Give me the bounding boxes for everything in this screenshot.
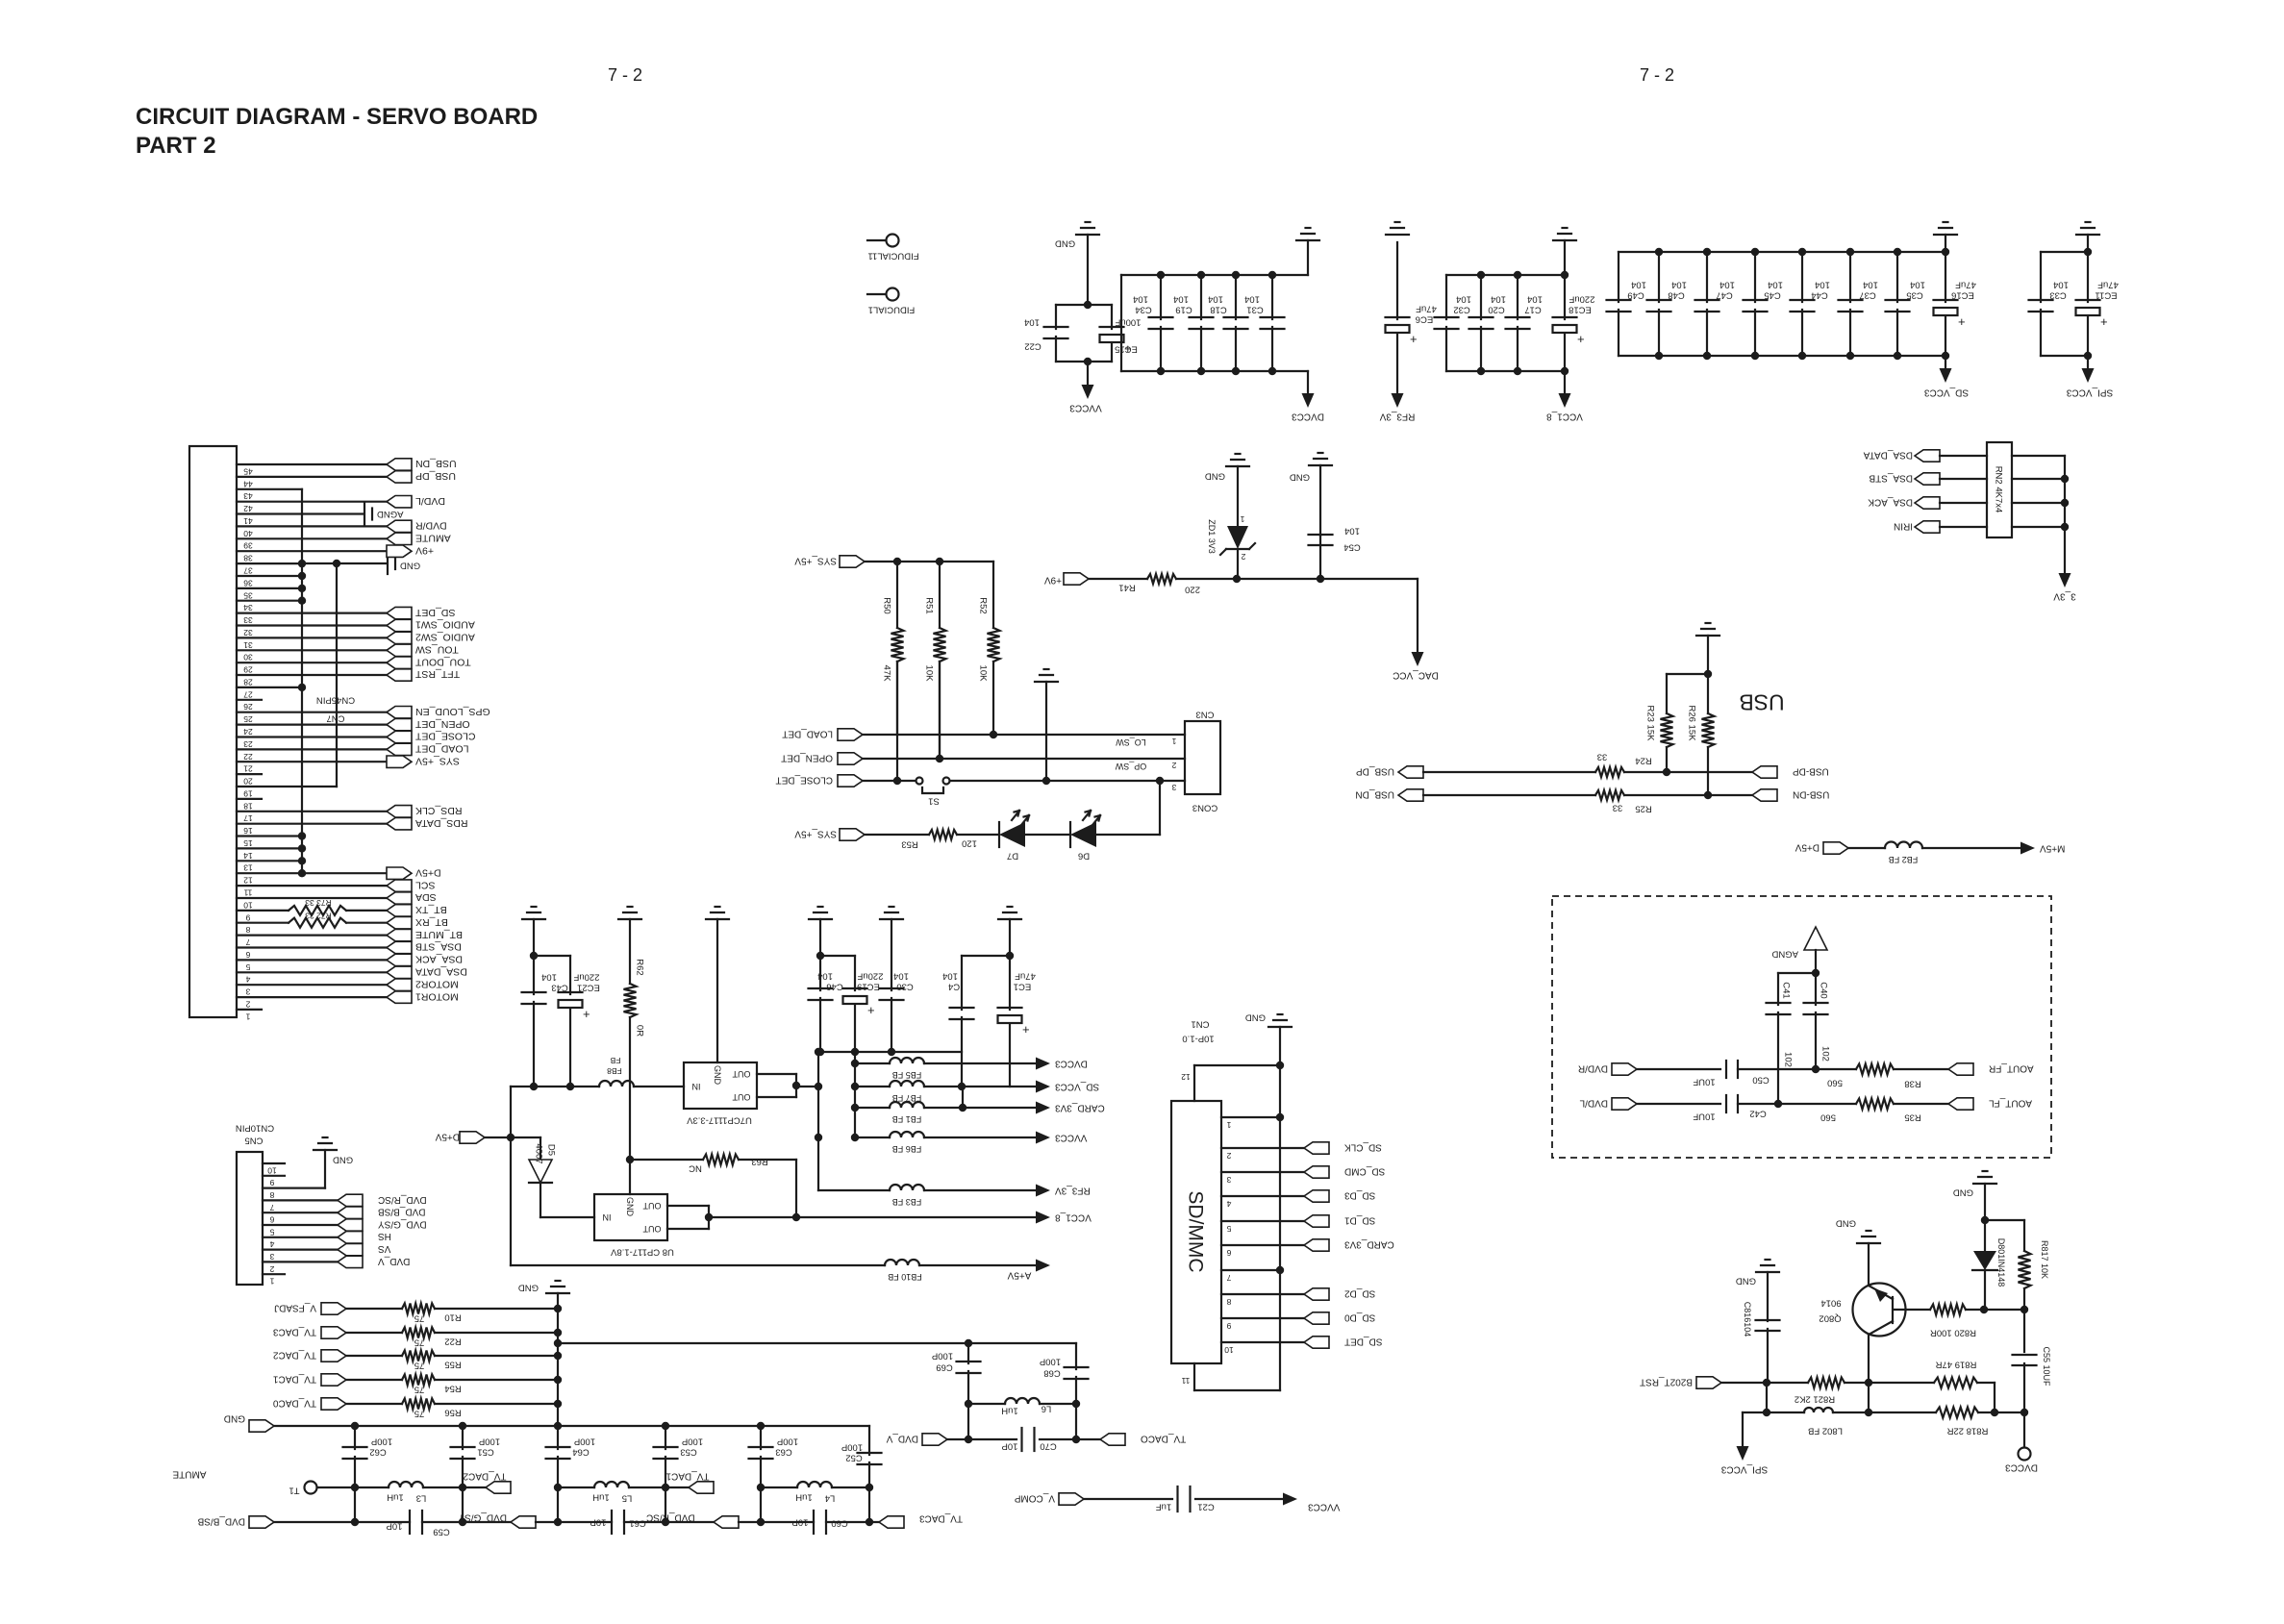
capacitor C31 104 [1271,275,1273,319]
wire TV-DAC termination bus [557,1293,559,1426]
svg-text:NC: NC [689,1163,702,1174]
svg-text:104: 104 [1768,280,1783,290]
svg-text:104: 104 [1863,280,1878,290]
svg-text:42: 42 [243,504,253,513]
wire input rail vertical [510,1087,512,1265]
svg-text:47uF: 47uF [1416,304,1437,314]
svg-text:R817 10K: R817 10K [2040,1240,2049,1279]
capacitor EC11 47uF [2087,252,2089,302]
svg-text:104: 104 [541,972,557,983]
svg-text:DVD_G/SY: DVD_G/SY [458,1512,507,1522]
svg-text:R23 15K: R23 15K [1645,706,1656,742]
net flag USB_DP (CN7 pin 44) [387,471,412,483]
ferrite bead FB3 FB (RF3_3V) [817,1137,819,1190]
svg-text:3_3V: 3_3V [2053,590,2076,601]
svg-text:100uF: 100uF [1115,317,1141,328]
CN7 pin 3 [237,984,387,986]
svg-text:13: 13 [243,863,253,873]
svg-text:OPEN_DET: OPEN_DET [781,752,833,762]
ground GND above EC11 [2076,234,2099,236]
CN1 pin 1 [1221,1116,1280,1118]
svg-text:104: 104 [1815,280,1830,290]
wire R821 to collector [1845,1382,1869,1384]
capacitor EC21 220uF [534,955,570,957]
svg-text:C52: C52 [845,1453,862,1463]
resistor R26 15K [1707,636,1709,713]
CN5 pin 2 [263,1261,338,1262]
svg-text:R24: R24 [1635,756,1651,766]
svg-text:GND: GND [1736,1276,1756,1287]
svg-text:100P: 100P [682,1437,703,1447]
capacitor C22 104 (VVCC3) [1056,304,1112,306]
svg-text:0R: 0R [635,1025,645,1037]
wire Q802 collector [1868,1335,1870,1383]
capacitor C68 100P [1075,1343,1077,1369]
CN5 pin 5 [263,1224,338,1226]
svg-text:104: 104 [2053,280,2069,290]
CN1 pin 6 [1221,1244,1304,1246]
net flag MOTOR1 (CN7 pin 2) [387,991,412,1003]
wire R820 to node [1966,1309,2024,1311]
svg-text:DSA_ACK: DSA_ACK [1868,496,1913,507]
wire video gnd bus [274,1425,869,1427]
net arrow CARD_3V3 [1036,1102,1050,1114]
svg-text:ZD1 3V3: ZD1 3V3 [1207,519,1217,554]
capacitor C30 104 [891,919,892,990]
svg-text:RF3_3V: RF3_3V [1379,411,1415,421]
svg-text:OUT: OUT [642,1224,662,1234]
wire IRIN to RN2 [1940,526,1987,528]
svg-text:104: 104 [1024,317,1040,328]
svg-text:GPS_LOUD_EN: GPS_LOUD_EN [415,706,490,717]
wire input rail top [511,1086,599,1087]
wire R50 bottom [896,662,898,781]
svg-text:33: 33 [1613,803,1623,813]
svg-text:3: 3 [269,1252,274,1262]
net flag DVD_V (CN5 pin 2) [338,1256,363,1267]
svg-text:C51: C51 [477,1447,493,1458]
ground AGND at CN7 pin41 [364,504,365,525]
wire to R53 [865,834,929,836]
svg-text:3: 3 [245,987,250,997]
svg-text:SPI_VCC3: SPI_VCC3 [2066,387,2113,397]
wire USB_DN to R25 [1423,794,1595,796]
junction CN7 pin 35 [298,585,306,592]
wire TV_DAC1 to R [346,1379,402,1381]
wire L802 to R818 [1833,1412,1936,1413]
svg-text:1uF: 1uF [1156,1502,1172,1512]
svg-text:220uF: 220uF [857,971,883,982]
CN7 pin 18 [237,798,262,800]
capacitor C816 104 [1756,1271,1779,1273]
svg-text:RDS_DATA: RDS_DATA [415,817,467,829]
net flag TV_DAC2 [486,1482,511,1493]
svg-text:24: 24 [243,727,253,737]
capacitor C50 10UF [1725,1061,1727,1078]
svg-text:AGND: AGND [1771,949,1798,960]
CN1 pin 11 [1193,1363,1195,1390]
fiducial FIDUCIAL1 [867,293,886,295]
svg-text:11: 11 [1181,1376,1190,1386]
wire collector tie down [1868,1383,1870,1412]
net flag SD_DET (CN1) [1304,1337,1329,1348]
svg-text:25: 25 [243,714,253,724]
svg-text:CARD_3V3: CARD_3V3 [1344,1238,1394,1249]
svg-text:DSA_DATA: DSA_DATA [415,966,467,978]
svg-text:10P: 10P [590,1517,607,1528]
capacitor C37 104 [1849,252,1851,302]
svg-text:104: 104 [942,971,958,982]
CN7 pin 7 [237,934,387,936]
svg-text:EC18: EC18 [1569,305,1592,315]
CN7 pin 39 [237,537,387,539]
svg-text:100P: 100P [841,1442,863,1453]
wire C52 column to bottom [868,1487,870,1522]
resistor network RN2 4K7x4 [1987,442,2012,537]
wire B202T_RST to R821 [1721,1382,1808,1384]
CN7 pin 25 [237,712,387,713]
ground GND above EC6 [1386,234,1409,236]
net arrow DVCC3 [1036,1058,1050,1070]
svg-text:R63: R63 [751,1157,767,1167]
net flag SYS_+5V (CN7 pin 21) [387,756,412,767]
svg-text:47uF: 47uF [1015,971,1036,982]
svg-text:SD_VCC3: SD_VCC3 [1055,1081,1100,1091]
svg-text:104: 104 [1344,526,1360,537]
svg-text:1uH: 1uH [795,1492,813,1503]
resistor R52 10K [992,562,994,628]
wire TV_DAC2 to R [346,1355,402,1357]
ground GND above S1 row [1035,681,1058,683]
CN5 pin 7 [263,1199,338,1201]
svg-text:VVCC3: VVCC3 [1069,402,1102,412]
wire D7 to D6 [1025,834,1070,836]
wire D6 to CN3 pin3 node [1096,834,1160,836]
capacitor C33 104 [2041,251,2088,253]
svg-text:OPEN_DET: OPEN_DET [414,718,469,730]
wire R63 to VCC1_8 row [739,1159,796,1161]
svg-text:IN: IN [692,1082,701,1091]
svg-text:C63: C63 [775,1447,791,1458]
svg-text:18: 18 [243,801,253,811]
CN7 pin 12 [237,872,387,874]
net flag VS (CN5 pin 3) [338,1243,363,1255]
svg-text:C34: C34 [1135,305,1151,315]
svg-text:104: 104 [1631,280,1646,290]
svg-text:22: 22 [243,752,253,762]
svg-text:C20: C20 [1488,305,1504,315]
svg-text:A+5V: A+5V [1007,1269,1031,1280]
CN7 pin 42 [237,501,387,503]
svg-text:R35: R35 [1904,1112,1920,1123]
svg-text:C48: C48 [1668,290,1684,301]
svg-text:12: 12 [1181,1072,1191,1082]
svg-text:38: 38 [243,554,253,563]
net flag AUDIO_SW2 (CN7 pin 31) [387,632,412,643]
svg-text:6: 6 [245,950,250,960]
wire LOAD_DET to CN3 pin1 [863,734,1185,736]
net flag SD_DET (CN7 pin 33) [387,607,412,618]
ground AGND symbol [1804,927,1827,950]
svg-text:GND: GND [224,1412,245,1423]
svg-text:R55: R55 [444,1360,461,1370]
svg-text:5: 5 [269,1227,274,1237]
svg-text:GND: GND [1055,238,1075,249]
ground GND above EC18 [1553,239,1576,241]
svg-text:C45: C45 [1764,290,1780,301]
svg-text:7: 7 [245,937,250,947]
svg-text:C49: C49 [1627,290,1644,301]
svg-text:CLOSE_DET: CLOSE_DET [414,731,475,742]
CN1 pin 12 [1193,1065,1195,1101]
capacitor C62 100P [354,1426,356,1449]
svg-text:L6: L6 [1042,1404,1052,1414]
CN7 pin 35 [237,587,302,589]
svg-text:+: + [867,1003,875,1017]
CN1 pin 8 [1221,1293,1304,1295]
svg-text:C33: C33 [2049,290,2066,301]
svg-text:104: 104 [1456,294,1471,305]
net arrow SD_VCC3 [1036,1081,1050,1093]
net flag TOU_DOUT (CN7 pin 29) [387,657,412,668]
svg-text:V_FSADJ: V_FSADJ [274,1302,316,1312]
svg-text:OP_SW: OP_SW [1115,762,1146,771]
wire SYS_+5V rail [865,561,993,562]
svg-text:102: 102 [1820,1046,1831,1062]
svg-text:D801IN4148: D801IN4148 [1996,1238,2006,1287]
net arrow SPI_VCC3 [2087,356,2089,367]
wire FB2 to M+5V [1922,847,2020,849]
capacitor EC18 220uF [1564,275,1566,319]
svg-text:45: 45 [243,466,253,476]
resistor R25 33 [1595,790,1624,800]
wire to DVD_G/SY [422,1521,511,1523]
svg-text:10: 10 [243,900,253,910]
svg-text:SYS_+5V: SYS_+5V [415,755,460,766]
wire CLOSE_DET to S1 [863,780,916,782]
svg-text:34: 34 [243,603,253,612]
svg-text:17: 17 [243,813,253,823]
capacitor EC16 47uF [1945,252,1946,302]
svg-text:R73 33: R73 33 [305,898,332,908]
CN7 pin 8 [237,922,289,924]
net flag SD_D0 (CN1) [1304,1312,1329,1324]
CN7 pin 24 [237,723,387,725]
svg-text:SD_CMD: SD_CMD [1344,1165,1385,1176]
net flag DSA_ACK (CN7 pin 5) [387,954,412,965]
net flag GPS_LOUD_EN (CN7 pin 25) [387,707,412,718]
svg-text:6: 6 [269,1215,274,1225]
zener diode ZD1 3V3 [1237,466,1239,526]
svg-text:TV_DAC2: TV_DAC2 [463,1470,506,1481]
svg-text:EC16: EC16 [1951,290,1974,301]
resistor R62 0R [629,919,631,984]
svg-text:19: 19 [243,788,253,798]
svg-text:USB_DN: USB_DN [1355,788,1394,799]
fiducial FIDUCIAL11 [867,239,886,241]
svg-text:40: 40 [243,529,253,538]
wire R55 to bus [435,1355,558,1357]
svg-text:GND: GND [713,1065,722,1086]
svg-text:10K: 10K [924,665,935,683]
svg-text:10P: 10P [792,1517,809,1528]
resistor R56 75 [402,1399,435,1410]
svg-text:11: 11 [243,888,252,898]
net flag TV_DAC0 (bottom) [1100,1434,1125,1445]
net flag DSA_STB (CN7 pin 6) [387,941,412,953]
capacitor C41 102 [1777,973,1779,1005]
svg-text:LO_SW: LO_SW [1116,737,1146,747]
svg-text:R56: R56 [444,1408,461,1418]
svg-text:GND: GND [1205,471,1225,482]
svg-text:CN10PIN: CN10PIN [236,1123,274,1134]
svg-text:FB6 FB: FB6 FB [892,1144,922,1154]
resistor R55 75 [402,1351,435,1362]
svg-text:C68: C68 [1043,1368,1060,1379]
svg-text:SD/MMC: SD/MMC [1184,1190,1206,1272]
capacitor C42 10UF [1725,1095,1727,1112]
wire C50 to R38 [1738,1068,1856,1070]
wire bottom row mid [536,1521,612,1523]
svg-text:75: 75 [414,1409,425,1419]
svg-text:C30: C30 [896,982,913,992]
svg-text:DVD/L: DVD/L [415,495,445,507]
svg-text:43: 43 [243,491,253,501]
wire DVD_V feed line [965,1339,972,1347]
wire RST tie [1766,1383,1768,1412]
ferrite bead FB8 FB [599,1081,634,1087]
svg-text:+: + [1410,332,1418,346]
svg-text:16: 16 [243,826,253,836]
svg-text:BT_RX: BT_RX [415,916,448,928]
wire C21 to VVCC3 [1195,1498,1282,1500]
svg-text:15: 15 [243,838,253,848]
svg-text:DVD_R/SC: DVD_R/SC [378,1194,427,1205]
capacitor C32 104 [1445,275,1447,319]
svg-text:R53: R53 [901,839,917,850]
wire DSA_DATA to RN2 [1940,455,1987,457]
svg-text:2: 2 [1226,1151,1231,1161]
svg-text:C19: C19 [1175,305,1192,315]
svg-text:EC21: EC21 [577,983,600,993]
svg-text:75: 75 [414,1313,425,1324]
svg-text:FB2 FB: FB2 FB [1889,855,1919,864]
CN7 pin 11 [237,885,387,887]
net arrow SD_VCC3 [1945,356,1946,367]
svg-text:R818 22R: R818 22R [1946,1426,1988,1437]
ground GND above VVCC3 caps [1076,234,1099,236]
wire RN2 row 1 to 3_3V bus [2012,455,2065,457]
svg-text:C55 10UF: C55 10UF [2042,1346,2051,1387]
svg-text:R10: R10 [444,1312,461,1323]
resistor R22 75 [402,1328,435,1338]
CN7 pin 30 [237,649,387,651]
CN7 pin 1 [237,1009,262,1011]
wire TV_DAC0 to R [346,1403,402,1405]
wire L3 to TV_DAC2 [423,1487,486,1488]
wire D+5V to rail [485,1137,511,1138]
wire FB7 to SD_VCC3 [924,1086,1035,1087]
net flag TV_DAC1 [689,1482,714,1493]
svg-text:DVD_V: DVD_V [378,1256,411,1266]
capacitor C34 104 [1160,275,1162,319]
svg-text:75: 75 [414,1337,425,1348]
LED D7 [999,822,1025,847]
svg-text:TV_DAC3: TV_DAC3 [273,1326,316,1337]
svg-text:100P: 100P [371,1437,392,1447]
svg-text:1: 1 [269,1277,274,1287]
ground GND above R26 [1696,635,1719,637]
svg-text:R62: R62 [635,959,645,975]
svg-text:C53: C53 [680,1447,696,1458]
svg-text:C42: C42 [1749,1109,1766,1119]
svg-text:SPI_VCC3: SPI_VCC3 [1720,1463,1768,1474]
ground GND above C43 [522,918,545,920]
wire FB8 to U7 [634,1086,684,1087]
net flag OPEN_DET (CN7 pin 24) [387,718,412,730]
wire RN2 row 4 to 3_3V bus [2012,526,2065,528]
svg-text:33: 33 [1597,752,1608,762]
svg-text:PART 2: PART 2 [136,133,216,159]
svg-text:C21: C21 [1197,1502,1214,1512]
net arrow DAC_VCC [1412,652,1424,666]
ferrite bead FB2 FB [1885,842,1922,849]
svg-text:SDA: SDA [415,891,437,903]
svg-text:4007: 4007 [534,1143,544,1163]
svg-text:TV_DAC0: TV_DAC0 [273,1397,316,1408]
wire DVD/R to C50 [1637,1068,1720,1070]
resistor R51 10K [939,562,941,628]
svg-text:USB-DN: USB-DN [1793,788,1829,799]
svg-text:VCC1_8: VCC1_8 [1546,411,1583,421]
wire R35 to AOUT_FL [1894,1103,1948,1105]
svg-text:SD_D1: SD_D1 [1344,1214,1376,1225]
svg-text:USB: USB [1739,690,1784,715]
ground GND above D801 [1973,1183,1996,1185]
ground GND above CN5 [314,1149,337,1151]
junction CN7 pin 27 [298,684,306,691]
svg-text:GND: GND [333,1155,353,1165]
svg-text:R38: R38 [1904,1079,1920,1089]
svg-text:+: + [1022,1022,1030,1037]
svg-text:10UF: 10UF [1693,1112,1715,1122]
CN7 pin 20 [237,773,262,775]
svg-text:560: 560 [1820,1112,1836,1123]
wire R25 to USB-DN [1624,794,1752,796]
inductor L802 FB [1804,1408,1833,1412]
net flag SD_CLK (CN1) [1304,1142,1329,1154]
inductor L6 1uH [968,1403,1005,1405]
svg-text:27: 27 [243,689,253,699]
net arrow RF3_3V [1036,1185,1050,1197]
net flag TV_DAC3 [879,1516,904,1528]
svg-text:DVD/R: DVD/R [415,520,447,532]
CN7 pin 21 [237,761,387,762]
svg-text:AMUTE: AMUTE [172,1468,206,1479]
svg-text:DSA_STB: DSA_STB [1869,472,1913,483]
switch S1 [916,778,923,785]
svg-text:L802 FB: L802 FB [1808,1426,1843,1437]
svg-text:DVD_B/SB: DVD_B/SB [378,1207,426,1217]
wire L4 to C52 column [832,1487,869,1488]
svg-text:7: 7 [1226,1273,1231,1283]
svg-text:29: 29 [243,665,253,675]
wire R52 bottom [990,731,997,738]
svg-text:LOAD_DET: LOAD_DET [414,743,468,755]
ferrite bead FB10 FB [885,1260,919,1265]
svg-text:102: 102 [1783,1052,1794,1067]
net flag RDS_CLK (CN7 pin 17) [387,806,412,817]
